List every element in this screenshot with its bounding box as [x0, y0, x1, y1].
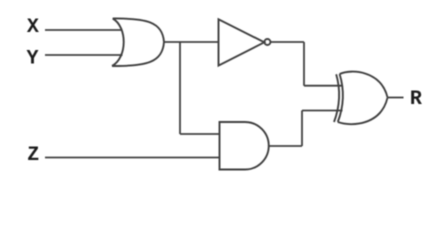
wire: AND path into XOR bottom input: [302, 110, 343, 112]
wire: NOT output right segment: [270, 41, 304, 43]
wire: AND output right segment: [269, 145, 302, 147]
wire: branch down to AND upper input: [180, 133, 220, 135]
wire: NOT path vertical down: [303, 42, 305, 86]
wire: input Z to AND gate: [45, 157, 220, 159]
and-gate U3 (branch AND Z): [220, 122, 269, 170]
wire: XOR output to R: [388, 97, 404, 99]
svg-text:Z: Z: [27, 144, 39, 167]
wire: input X to OR gate: [45, 29, 123, 31]
wire: AND path vertical up: [301, 111, 303, 147]
node: junction of OR output branch: [179, 42, 181, 134]
wire: input Y to OR gate: [45, 54, 123, 56]
not-gate U2 (inverter): [219, 19, 271, 65]
svg-text:R: R: [410, 88, 422, 111]
wire: OR output to NOT input: [164, 41, 219, 43]
svg-text:X: X: [27, 16, 39, 39]
svg-text:Y: Y: [26, 48, 38, 71]
wire: NOT path into XOR top input: [304, 85, 343, 87]
or-gate U1 (X OR Y): [112, 18, 164, 66]
xor-gate U4: [334, 72, 388, 125]
